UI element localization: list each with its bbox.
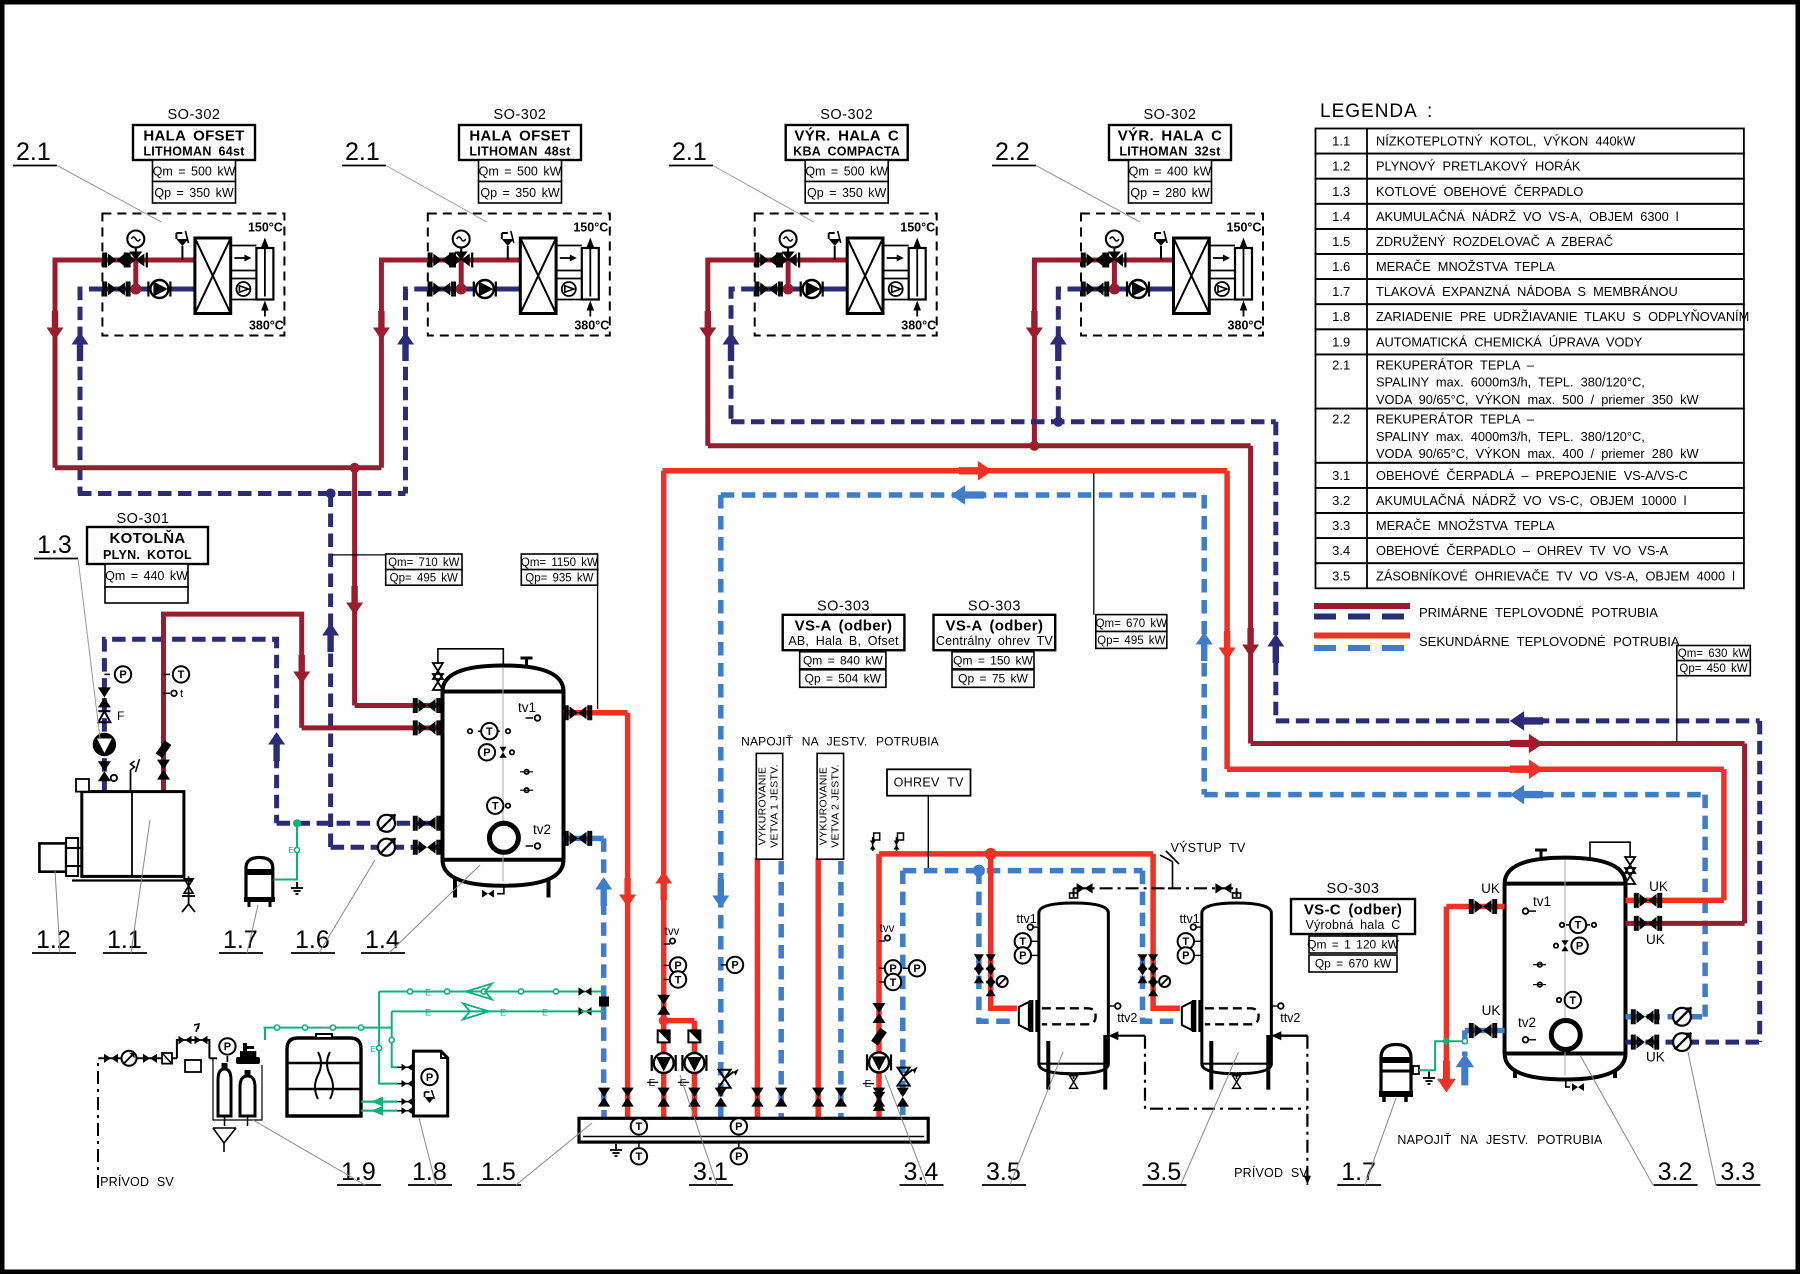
svg-text:150°C: 150°C — [573, 221, 608, 235]
svg-text:P: P — [731, 960, 738, 972]
svg-text:T: T — [636, 1121, 643, 1133]
svg-text:UK: UK — [1649, 879, 1668, 894]
svg-text:LEGENDA :: LEGENDA : — [1320, 101, 1433, 122]
svg-text:E: E — [500, 1008, 506, 1018]
svg-text:VÝR. HALA C: VÝR. HALA C — [794, 127, 899, 145]
svg-text:380°C: 380°C — [249, 319, 284, 333]
svg-text:P: P — [224, 1041, 231, 1053]
svg-text:1.3: 1.3 — [37, 531, 72, 559]
svg-text:Qp = 670 kW: Qp = 670 kW — [1315, 957, 1392, 971]
svg-text:150°C: 150°C — [900, 221, 935, 235]
svg-text:SO-303: SO-303 — [817, 599, 870, 615]
svg-text:tvv: tvv — [880, 923, 895, 935]
svg-text:NÍZKOTEPLOTNÝ KOTOL, VÝKON 440: NÍZKOTEPLOTNÝ KOTOL, VÝKON 440kW — [1376, 134, 1636, 149]
svg-text:KOTLOVÉ OBEHOVÉ ČERPADLO: KOTLOVÉ OBEHOVÉ ČERPADLO — [1376, 184, 1583, 199]
svg-text:P: P — [735, 1121, 742, 1133]
svg-text:Qp= 495 kW: Qp= 495 kW — [390, 572, 458, 584]
svg-text:tv2: tv2 — [1518, 1015, 1536, 1030]
svg-text:2.1: 2.1 — [16, 138, 51, 166]
svg-text:P: P — [1182, 950, 1189, 962]
svg-text:Qm= 670 kW: Qm= 670 kW — [1096, 618, 1168, 630]
svg-text:P: P — [913, 963, 920, 975]
svg-text:LITHOMAN 48st: LITHOMAN 48st — [469, 145, 571, 159]
svg-text:2.1: 2.1 — [672, 138, 707, 166]
svg-text:3.5: 3.5 — [1147, 1158, 1182, 1186]
svg-text:1.5: 1.5 — [481, 1158, 516, 1186]
svg-text:SO-303: SO-303 — [968, 599, 1021, 615]
svg-text:SO-302: SO-302 — [820, 107, 873, 123]
svg-text:1.6: 1.6 — [1332, 259, 1350, 274]
svg-text:VS-A (odber): VS-A (odber) — [946, 618, 1044, 635]
svg-text:P: P — [1019, 950, 1026, 962]
svg-text:TLAKOVÁ EXPANZNÁ NÁDOBA S MEMB: TLAKOVÁ EXPANZNÁ NÁDOBA S MEMBRÁNOU — [1376, 284, 1678, 299]
svg-text:OBEHOVÉ ČERPADLO – OHREV TV VO: OBEHOVÉ ČERPADLO – OHREV TV VO VS-A — [1376, 543, 1669, 558]
svg-text:SEKUNDÁRNE TEPLOVODNÉ POTRUBIA: SEKUNDÁRNE TEPLOVODNÉ POTRUBIA — [1419, 634, 1680, 649]
svg-text:3.5: 3.5 — [1332, 568, 1350, 583]
svg-text:1.4: 1.4 — [1332, 209, 1350, 224]
svg-text:Qp = 350 kW: Qp = 350 kW — [480, 186, 559, 200]
svg-text:1.3: 1.3 — [1332, 184, 1350, 199]
svg-text:Qm = 500 kW: Qm = 500 kW — [479, 165, 562, 179]
svg-text:tvv: tvv — [665, 926, 680, 938]
svg-text:3.2: 3.2 — [1332, 493, 1350, 508]
svg-text:SO-302: SO-302 — [494, 107, 547, 123]
svg-text:P: P — [735, 1151, 742, 1163]
svg-text:Centrálny ohrev TV: Centrálny ohrev TV — [936, 634, 1054, 648]
svg-text:150°C: 150°C — [1227, 221, 1262, 235]
svg-text:NAPOJIŤ NA JESTV. POTRUBIA: NAPOJIŤ NA JESTV. POTRUBIA — [1397, 1132, 1603, 1147]
svg-text:Qm = 500 kW: Qm = 500 kW — [153, 165, 236, 179]
svg-text:Qp = 75 kW: Qp = 75 kW — [958, 672, 1028, 686]
svg-text:MERAČE MNOŽSTVA TEPLA: MERAČE MNOŽSTVA TEPLA — [1376, 518, 1555, 533]
svg-text:SPALINY max. 6000m3/h, TEPL. 3: SPALINY max. 6000m3/h, TEPL. 380/120°C, — [1376, 375, 1645, 390]
svg-text:1.1: 1.1 — [107, 926, 142, 954]
svg-text:PRÍVOD SV: PRÍVOD SV — [1234, 1165, 1308, 1180]
svg-text:3.3: 3.3 — [1720, 1158, 1755, 1186]
svg-text:P: P — [483, 747, 490, 759]
svg-text:SO-302: SO-302 — [168, 107, 221, 123]
svg-text:1.4: 1.4 — [365, 926, 400, 954]
svg-text:VYKUROVANIE: VYKUROVANIE — [817, 767, 829, 845]
svg-text:AKUMULAČNÁ NÁDRŽ VO VS-A, OBJE: AKUMULAČNÁ NÁDRŽ VO VS-A, OBJEM 6300 l — [1376, 209, 1679, 224]
svg-text:1.8: 1.8 — [412, 1158, 447, 1186]
svg-text:1.8: 1.8 — [1332, 309, 1350, 324]
svg-text:OHREV TV: OHREV TV — [894, 776, 964, 790]
svg-text:E: E — [865, 1079, 872, 1090]
svg-text:Qp= 935 kW: Qp= 935 kW — [525, 572, 593, 584]
svg-text:UK: UK — [1482, 1003, 1501, 1018]
svg-text:3.3: 3.3 — [1332, 518, 1350, 533]
svg-text:MERAČE MNOŽSTVA TEPLA: MERAČE MNOŽSTVA TEPLA — [1376, 259, 1555, 274]
svg-text:Qm = 500 kW: Qm = 500 kW — [805, 165, 888, 179]
svg-text:1.2: 1.2 — [36, 926, 71, 954]
svg-text:REKUPERÁTOR TEPLA –: REKUPERÁTOR TEPLA – — [1376, 357, 1535, 372]
svg-text:LITHOMAN 64st: LITHOMAN 64st — [143, 145, 245, 159]
svg-text:T: T — [636, 1151, 643, 1163]
svg-text:T: T — [492, 801, 499, 813]
svg-text:Qm = 1 120 kW: Qm = 1 120 kW — [1307, 938, 1399, 952]
svg-text:VÝR. HALA C: VÝR. HALA C — [1118, 127, 1223, 145]
svg-text:Qp = 504 kW: Qp = 504 kW — [805, 672, 882, 686]
svg-text:VYKUROVANIE: VYKUROVANIE — [757, 767, 769, 845]
svg-text:VODA 90/65°C, VÝKON max. 400 /: VODA 90/65°C, VÝKON max. 400 / priemer 2… — [1376, 446, 1700, 461]
svg-text:tv1: tv1 — [518, 700, 536, 715]
svg-text:P: P — [119, 669, 126, 681]
svg-text:2.2: 2.2 — [995, 138, 1030, 166]
svg-text:LITHOMAN 32st: LITHOMAN 32st — [1119, 145, 1221, 159]
svg-text:VS-A (odber): VS-A (odber) — [795, 618, 893, 635]
svg-text:ttv2: ttv2 — [1280, 1011, 1300, 1025]
svg-text:P: P — [426, 1072, 433, 1084]
svg-text:3.1: 3.1 — [693, 1158, 728, 1186]
svg-text:1.2: 1.2 — [1332, 159, 1350, 174]
svg-text:Qm = 400 kW: Qm = 400 kW — [1129, 165, 1212, 179]
svg-text:3.4: 3.4 — [1332, 543, 1350, 558]
svg-text:VÝSTUP TV: VÝSTUP TV — [1171, 840, 1246, 855]
svg-text:ZDRUŽENÝ ROZDELOVAČ A ZBERAČ: ZDRUŽENÝ ROZDELOVAČ A ZBERAČ — [1376, 234, 1613, 249]
svg-text:VS-C (odber): VS-C (odber) — [1304, 902, 1402, 919]
svg-text:Qm= 630 kW: Qm= 630 kW — [1678, 648, 1750, 660]
svg-text:PLYN. KOTOL: PLYN. KOTOL — [103, 548, 192, 562]
svg-text:1.7: 1.7 — [1341, 1158, 1376, 1186]
svg-text:E: E — [542, 1008, 548, 1018]
svg-text:HALA OFSET: HALA OFSET — [469, 128, 570, 145]
svg-text:SO-302: SO-302 — [1144, 107, 1197, 123]
svg-text:380°C: 380°C — [1228, 319, 1263, 333]
svg-text:AKUMULAČNÁ NÁDRŽ VO VS-C, OBJE: AKUMULAČNÁ NÁDRŽ VO VS-C, OBJEM 10000 l — [1376, 493, 1686, 508]
svg-text:1.7: 1.7 — [1332, 284, 1350, 299]
svg-text:tv1: tv1 — [1533, 894, 1551, 909]
svg-text:Qm = 150 kW: Qm = 150 kW — [953, 653, 1033, 667]
svg-text:UK: UK — [1646, 932, 1665, 947]
svg-text:PRIMÁRNE TEPLOVODNÉ POTRUBIA: PRIMÁRNE TEPLOVODNÉ POTRUBIA — [1419, 605, 1658, 620]
svg-text:1.6: 1.6 — [295, 926, 330, 954]
svg-text:F: F — [117, 709, 124, 723]
svg-text:Qp= 495 kW: Qp= 495 kW — [1097, 635, 1165, 647]
svg-text:ttv1: ttv1 — [1180, 912, 1200, 926]
svg-text:OBEHOVÉ ČERPADLÁ – PREPOJENIE: OBEHOVÉ ČERPADLÁ – PREPOJENIE VS-A/VS-C — [1376, 468, 1688, 483]
svg-text:Qp= 450 kW: Qp= 450 kW — [1679, 663, 1747, 675]
svg-text:SPALINY max. 4000m3/h, TEPL. 3: SPALINY max. 4000m3/h, TEPL. 380/120°C, — [1376, 429, 1645, 444]
svg-text:3.4: 3.4 — [904, 1158, 939, 1186]
svg-text:3.2: 3.2 — [1658, 1158, 1693, 1186]
svg-text:AB, Hala B, Ofset: AB, Hala B, Ofset — [788, 634, 899, 648]
svg-text:380°C: 380°C — [901, 319, 936, 333]
svg-text:3.1: 3.1 — [1332, 468, 1350, 483]
svg-text:ttv2: ttv2 — [1117, 1011, 1137, 1025]
svg-text:E: E — [288, 846, 293, 855]
svg-text:150°C: 150°C — [248, 221, 283, 235]
svg-text:PLYNOVÝ PRETLAKOVÝ HORÁK: PLYNOVÝ PRETLAKOVÝ HORÁK — [1376, 159, 1581, 174]
svg-text:1.5: 1.5 — [1332, 234, 1350, 249]
svg-text:KBA COMPACTA: KBA COMPACTA — [793, 145, 900, 159]
svg-text:NAPOJIŤ NA JESTV. POTRUBIA: NAPOJIŤ NA JESTV. POTRUBIA — [741, 733, 939, 748]
svg-text:380°C: 380°C — [574, 319, 609, 333]
svg-text:T: T — [1575, 920, 1582, 932]
svg-text:T: T — [675, 974, 682, 986]
svg-text:HALA OFSET: HALA OFSET — [143, 128, 244, 145]
svg-text:t: t — [180, 688, 183, 700]
svg-text:ZÁSOBNÍKOVÉ OHRIEVAČE TV VO VS: ZÁSOBNÍKOVÉ OHRIEVAČE TV VO VS-A, OBJEM … — [1376, 568, 1735, 583]
svg-text:1.9: 1.9 — [1332, 334, 1350, 349]
svg-text:Qm = 440 kW: Qm = 440 kW — [105, 569, 188, 583]
svg-text:2.1: 2.1 — [345, 138, 380, 166]
svg-text:VETVA 2 JESTV.: VETVA 2 JESTV. — [829, 764, 841, 848]
svg-text:SO-301: SO-301 — [117, 511, 170, 527]
svg-text:T: T — [1569, 995, 1576, 1007]
svg-text:UK: UK — [1646, 1050, 1665, 1065]
svg-text:KOTOLŇA: KOTOLŇA — [110, 529, 186, 547]
svg-text:Qp = 280 kW: Qp = 280 kW — [1130, 186, 1209, 200]
svg-text:E: E — [425, 1008, 431, 1018]
svg-text:PRÍVOD SV: PRÍVOD SV — [100, 1174, 174, 1189]
svg-text:UK: UK — [1481, 881, 1500, 896]
svg-text:T: T — [178, 669, 185, 681]
svg-text:1.9: 1.9 — [341, 1158, 376, 1186]
svg-text:1.1: 1.1 — [1332, 134, 1350, 149]
svg-text:Qm = 840 kW: Qm = 840 kW — [803, 653, 883, 667]
svg-text:VODA 90/65°C, VÝKON max. 500 /: VODA 90/65°C, VÝKON max. 500 / priemer 3… — [1376, 392, 1700, 407]
svg-text:Qm= 1150 kW: Qm= 1150 kW — [521, 557, 598, 569]
svg-text:2.2: 2.2 — [1332, 412, 1350, 427]
svg-text:ttv1: ttv1 — [1017, 912, 1037, 926]
svg-text:AUTOMATICKÁ CHEMICKÁ ÚPRAVA VO: AUTOMATICKÁ CHEMICKÁ ÚPRAVA VODY — [1376, 334, 1643, 349]
svg-text:Qp = 350 kW: Qp = 350 kW — [807, 186, 886, 200]
svg-text:T: T — [486, 726, 493, 738]
svg-text:P: P — [1576, 941, 1583, 953]
svg-text:Výrobná hala C: Výrobná hala C — [1306, 918, 1401, 932]
svg-text:ZARIADENIE PRE UDRŽIAVANIE TLA: ZARIADENIE PRE UDRŽIAVANIE TLAKU S ODPLY… — [1376, 309, 1749, 324]
svg-text:Qp = 350 kW: Qp = 350 kW — [154, 186, 233, 200]
svg-text:SO-303: SO-303 — [1327, 881, 1380, 897]
svg-text:E: E — [370, 1044, 376, 1054]
svg-text:E: E — [649, 1078, 656, 1089]
svg-text:tv2: tv2 — [533, 822, 551, 837]
svg-text:2.1: 2.1 — [1332, 357, 1350, 372]
svg-text:Qm= 710 kW: Qm= 710 kW — [388, 557, 460, 569]
svg-text:E: E — [425, 988, 431, 998]
svg-text:T: T — [890, 977, 897, 989]
svg-text:REKUPERÁTOR TEPLA –: REKUPERÁTOR TEPLA – — [1376, 412, 1535, 427]
svg-text:VETVA 1 JESTV.: VETVA 1 JESTV. — [769, 764, 781, 848]
